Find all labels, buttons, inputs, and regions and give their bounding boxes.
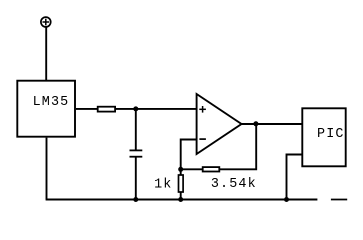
plus input marker [199,106,206,113]
sensor LM35 [17,81,75,137]
power +V supply symbol [41,17,51,27]
ground rail wire [46,199,318,201]
output junction node [253,121,258,126]
junction PIC ground at rail [284,197,289,202]
wire node A to capacitor C1 [135,109,137,150]
svg-text:1k: 1k [154,178,172,193]
junction 1k at ground rail [178,197,183,202]
resistor R1 [98,107,115,112]
feedback wire 3.54k to op-amp output [220,124,257,170]
wire node B to resistor 1k [180,169,182,175]
junction C1 at ground rail [133,197,138,202]
resistor 3.54k [203,167,220,171]
resistor 1k [179,175,184,192]
svg-text:PIC: PIC [317,127,345,142]
minus input marker [199,138,206,140]
node A junction [133,106,138,111]
node B junction [178,167,183,172]
wire R1 to op-amp non-inverting input [116,108,197,110]
wire LM35 bottom to ground rail [46,138,48,200]
wire inverting input to node B [181,140,197,170]
wire PIC ground pin to rail [287,155,302,200]
wire C1 to ground rail [135,157,137,200]
rail continuation dash [331,199,347,201]
wire LM35 output to resistor R1 [76,108,98,110]
wire 1k to ground rail [180,192,182,200]
svg-text:LM35: LM35 [33,95,70,110]
wire node B to resistor 3.54k [181,168,203,170]
microcontroller PIC [302,108,345,166]
wire op-amp output to PIC [242,123,303,125]
svg-text:3.54k: 3.54k [211,177,257,192]
wire power to LM35 top [45,27,47,80]
op-amp U1 [197,94,242,154]
capacitor C1 [130,150,143,156]
